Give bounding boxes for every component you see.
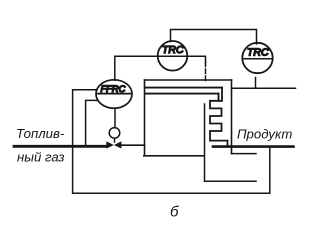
label: Топлив- [16,126,65,141]
pipe: valve outlet to furnace wall [121,144,145,146]
wire: FFRC output stem down to valve actuator [114,108,116,127]
wire: TRC1 sensor line going right and down into furnace to bottom loop [188,56,257,181]
label: Продукт [237,127,292,142]
product pipe (thick, exits furnace to the right) [213,145,294,148]
svg-text:Продукт: Продукт [237,127,292,142]
control valve body (bowtie) [106,141,121,148]
wire: TRC1 output to FFRC (cascade correction line) [115,56,158,80]
svg-text:б: б [170,204,179,220]
furnace coil serpentine [210,88,228,147]
label: ный газ [17,150,65,165]
flue/product sensing line to the right of furnace [232,87,296,89]
fuel gas pipe (thick, from left edge to valve) [14,145,107,148]
svg-text:ный газ: ный газ [17,150,65,165]
control valve actuator (circle) [109,128,120,142]
svg-text:FFRC: FFRC [101,84,126,94]
instrument TRC2 (temperature controller, right) [242,43,272,73]
label TRC on TRC2 [247,47,269,59]
wire: setpoint signal line from TRC1 top to TRC2 top [171,30,257,45]
furnace outline [144,80,232,156]
svg-text:TRC: TRC [162,44,184,56]
wire: flow tap A from product line (around the bottom) to FFRC [73,90,270,193]
wire: stub line from furnace right wall bottom corner to the right [232,153,257,155]
wire: flow tap B from fuel gas line to FFRC [86,100,98,145]
wire: TRC2 sensor tick down to line [255,78,257,89]
label: б (figure letter) [170,204,179,221]
instrument FFRC (flow ratio controller) [96,80,132,108]
svg-text:Топлив-: Топлив- [16,126,65,141]
svg-text:TRC: TRC [247,47,269,59]
furnace coil inlet tube (double line) [145,88,222,101]
label TRC on TRC1 [162,44,184,56]
instrument TRC1 (temperature controller, left) [158,41,188,71]
label FFRC [101,84,126,94]
